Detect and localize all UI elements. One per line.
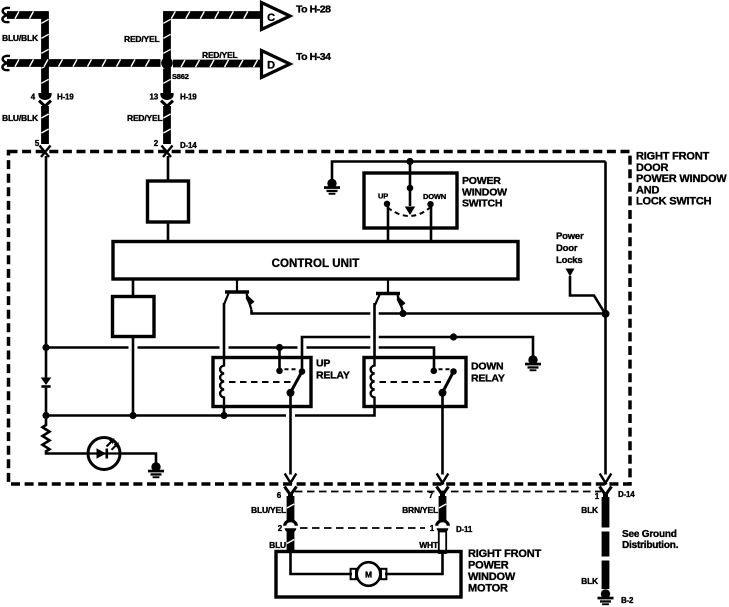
svg-text:WINDOW: WINDOW — [462, 186, 507, 198]
wire BLU/BLK horizontal feed from left — [2, 8, 48, 22]
wire RED/YEL vertical upper — [163, 11, 170, 93]
svg-text:AND: AND — [636, 184, 659, 196]
svg-text:WINDOW: WINDOW — [468, 571, 516, 583]
svg-text:B-2: B-2 — [621, 596, 634, 605]
label D-14 bottom — [618, 490, 635, 499]
label DOWN — [423, 192, 446, 201]
wire BLU — [287, 532, 294, 554]
down relay armature — [443, 372, 454, 393]
svg-text:DOWN: DOWN — [471, 361, 503, 373]
svg-text:Distribution.: Distribution. — [622, 540, 679, 551]
wire W2 relay NO bus to ground — [302, 337, 533, 372]
transistor Q1 — [224, 279, 255, 310]
junction dot door locks bus — [602, 310, 610, 318]
svg-text:D-11: D-11 — [456, 525, 473, 534]
svg-text:D-14: D-14 — [180, 141, 197, 150]
label BLK lower — [581, 576, 599, 586]
svg-text:RED/YEL: RED/YEL — [124, 34, 159, 44]
down relay contact gap dashes — [439, 368, 451, 370]
connector funnel 7 — [437, 487, 449, 498]
svg-text:M: M — [365, 570, 372, 580]
right front power window motor box — [276, 552, 461, 598]
diode D1 — [41, 378, 52, 416]
wire BRN/YEL — [439, 496, 446, 522]
wire motor left lead — [291, 552, 353, 575]
svg-text:RIGHT FRONT: RIGHT FRONT — [636, 151, 709, 163]
label POWER WINDOW SWITCH — [462, 175, 507, 210]
svg-text:RELAY: RELAY — [316, 370, 350, 382]
label BLU/YEL — [251, 505, 286, 515]
pin 7 label — [429, 491, 434, 500]
motor M1 — [351, 562, 387, 586]
wire UP contact to control unit — [387, 205, 390, 241]
connector 1 D-11 — [430, 521, 473, 534]
wire RED/YEL horizontal feed from left — [2, 56, 160, 70]
down relay pivot dot — [439, 389, 447, 397]
pin 5 label — [35, 139, 40, 148]
arrow into door box left — [40, 146, 51, 158]
junction dot left-W3 — [42, 412, 49, 419]
up relay coil to W3 — [223, 407, 226, 416]
svg-text:See Ground: See Ground — [622, 529, 677, 540]
down relay coil — [371, 358, 375, 407]
up relay coil — [220, 358, 224, 407]
label UP RELAY — [316, 358, 350, 382]
svg-text:BLK: BLK — [581, 576, 599, 586]
wire W3 coil return bus — [46, 406, 375, 416]
up relay common contact wire — [278, 348, 281, 371]
switch common wire — [409, 162, 412, 207]
svg-text:RIGHT FRONT: RIGHT FRONT — [468, 548, 541, 560]
down relay contact dots — [431, 368, 457, 375]
label To H-28 — [296, 4, 331, 16]
wire B1 to control unit — [167, 222, 170, 241]
connector 2 D-11 — [278, 521, 297, 533]
down relay dashed actuation link — [380, 381, 444, 383]
svg-text:Power: Power — [556, 231, 584, 242]
pin 2 label — [154, 139, 198, 150]
down relay box — [364, 358, 466, 407]
connector funnel 1 — [600, 487, 612, 498]
svg-text:Door: Door — [556, 243, 578, 254]
resistor R1 — [43, 416, 88, 454]
wire node5 vertical inside — [45, 156, 48, 378]
svg-text:2: 2 — [154, 139, 159, 148]
svg-text:S862: S862 — [172, 72, 189, 81]
switch dashed travel arc — [388, 208, 431, 217]
arrow exit 7 — [437, 474, 449, 485]
junction dot W1 up-relay — [276, 344, 283, 351]
up relay contact gap dashes — [285, 368, 298, 370]
up relay armature — [291, 372, 303, 393]
svg-text:RELAY: RELAY — [471, 373, 505, 385]
svg-text:POWER WINDOW: POWER WINDOW — [636, 173, 727, 185]
svg-text:BLU: BLU — [269, 540, 286, 550]
wire RED/YEL top run to connector C — [163, 11, 260, 18]
svg-text:DOWN: DOWN — [423, 192, 446, 201]
up relay box — [213, 358, 311, 407]
wire BLU/BLK vertical upper — [41, 11, 48, 93]
svg-text:LOCK SWITCH: LOCK SWITCH — [636, 196, 712, 208]
label See Ground Distribution — [622, 529, 679, 551]
label BLU/BLK upper — [2, 33, 39, 43]
transistor Q2 — [375, 279, 406, 312]
switch wiper arrow — [405, 207, 415, 216]
svg-text:D: D — [267, 60, 275, 72]
svg-text:BLU/BLK: BLU/BLK — [2, 113, 39, 123]
svg-text:UP: UP — [378, 192, 388, 201]
wire BLU/YEL — [287, 496, 294, 522]
svg-text:Locks: Locks — [556, 255, 582, 266]
label BLU — [269, 540, 286, 550]
wire up relay to motor exit — [289, 393, 292, 475]
ground G3 — [148, 462, 164, 478]
component box B1 — [148, 181, 189, 222]
svg-text:H-19: H-19 — [180, 93, 197, 102]
svg-text:SWITCH: SWITCH — [462, 198, 502, 210]
up relay contact dots — [276, 368, 305, 375]
label RIGHT FRONT DOOR POWER WINDOW AND LOCK SWITCH — [636, 151, 727, 208]
wire BLU/BLK vertical lower — [41, 106, 48, 144]
switch common dot — [407, 185, 414, 192]
connector D triangle — [262, 51, 291, 78]
power door locks arrow — [566, 269, 575, 277]
label Power Door Locks — [556, 231, 584, 266]
connector 13 H-19 — [150, 93, 198, 107]
connector 4 H-19 — [31, 93, 75, 107]
wire WHT hollow — [439, 532, 446, 554]
up relay dashed actuation link — [229, 381, 291, 383]
switch DOWN contact — [427, 201, 433, 207]
svg-text:BLK: BLK — [581, 505, 599, 515]
svg-text:To H-34: To H-34 — [296, 51, 331, 63]
arrow exit 1 — [600, 474, 612, 485]
power window switch box — [364, 173, 457, 228]
label BLK upper — [581, 505, 599, 515]
splice S862 wire to D — [173, 60, 260, 67]
svg-text:BRN/YEL: BRN/YEL — [402, 505, 438, 515]
label RED/YEL lower — [127, 113, 162, 123]
svg-text:CONTROL UNIT: CONTROL UNIT — [272, 258, 360, 270]
junction dot B2-W3 — [129, 412, 136, 419]
ground G1 wire — [332, 162, 606, 180]
svg-text:1: 1 — [430, 524, 435, 533]
wire LED to ground — [120, 454, 156, 464]
svg-text:13: 13 — [150, 93, 159, 102]
component box B2 — [113, 297, 155, 337]
connector D-14 dashed link — [295, 491, 601, 493]
junction dot Q2 collector — [399, 310, 406, 317]
svg-text:MOTOR: MOTOR — [468, 583, 508, 595]
wire BLK segment 1 — [602, 497, 610, 528]
svg-text:4: 4 — [31, 93, 36, 102]
svg-text:RED/YEL: RED/YEL — [202, 50, 237, 60]
svg-text:1: 1 — [595, 492, 600, 501]
svg-text:To H-28: To H-28 — [296, 4, 331, 16]
wire RED/YEL vertical lower — [163, 106, 170, 144]
wire down relay to motor exit — [441, 393, 444, 475]
ground G1 — [324, 179, 340, 195]
label WHT — [419, 540, 439, 550]
connector funnel 6 — [285, 487, 297, 498]
pin 6 label — [277, 491, 282, 500]
svg-text:6: 6 — [277, 491, 282, 500]
pin 1 label — [595, 492, 600, 501]
splice dot S862 — [161, 57, 189, 81]
arrow exit 6 — [285, 474, 297, 485]
wire W1 relay common bus — [46, 348, 434, 371]
label RED/YEL upper — [124, 34, 159, 44]
label BRN/YEL — [402, 505, 438, 515]
label DOWN RELAY — [471, 361, 505, 385]
label BLU/BLK lower — [2, 113, 39, 123]
wire right bus to exit — [604, 162, 607, 475]
junction dot left-W1 — [42, 344, 49, 351]
wire motor right lead — [385, 552, 443, 575]
label RED/YEL above feed — [202, 50, 237, 60]
ground B-2 — [598, 589, 635, 605]
connector D-11 dashed link — [300, 527, 425, 529]
svg-text:C: C — [267, 12, 275, 24]
svg-text:WHT: WHT — [419, 540, 439, 550]
label CONTROL UNIT — [272, 258, 360, 270]
junction dot up-coil W3 — [220, 412, 227, 419]
up relay pivot dot — [287, 389, 295, 397]
switch UP contact — [384, 201, 390, 207]
junction dot switch feed — [406, 158, 413, 165]
wire BLK segment 2 — [602, 532, 610, 557]
connector C triangle — [262, 3, 291, 30]
label To H-34 — [296, 51, 331, 63]
indicator LED lamp — [88, 438, 120, 470]
wire power door locks — [570, 276, 605, 314]
right front door power window and lock switch dashed box — [9, 152, 631, 485]
junction dot W2 down-relay — [450, 333, 457, 340]
label RIGHT FRONT POWER WINDOW MOTOR — [468, 548, 541, 595]
arrow into door box right — [162, 146, 173, 158]
wire DOWN contact to control unit — [430, 206, 433, 242]
svg-text:D-14: D-14 — [618, 490, 635, 499]
wire control unit to box B2 — [132, 279, 135, 297]
svg-text:UP: UP — [316, 358, 330, 370]
wire BLK segment 3 — [602, 561, 610, 590]
wire into diode box B1 — [167, 156, 170, 181]
svg-text:2: 2 — [278, 524, 283, 533]
svg-text:DOOR: DOOR — [636, 162, 668, 174]
wire collector bus y313 — [252, 310, 606, 314]
svg-text:H-19: H-19 — [57, 93, 74, 102]
svg-text:POWER: POWER — [468, 560, 509, 572]
up relay coil wire from Q1 — [223, 303, 226, 358]
wire B2 to W3 — [132, 337, 135, 416]
svg-text:BLU/BLK: BLU/BLK — [2, 33, 39, 43]
label UP — [378, 192, 388, 201]
svg-text:RED/YEL: RED/YEL — [127, 113, 162, 123]
control unit box — [113, 242, 518, 280]
down relay coil wire from Q2 — [373, 303, 376, 358]
svg-text:BLU/YEL: BLU/YEL — [251, 505, 286, 515]
svg-text:POWER: POWER — [462, 175, 501, 187]
ground G2 — [525, 355, 541, 371]
